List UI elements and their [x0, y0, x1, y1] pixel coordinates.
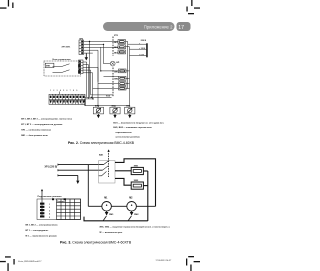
wire strip2 pin1 drop — [83, 62, 87, 97]
svg-text:М 1 — переключатель режима: М 1 — переключатель режима — [26, 236, 58, 238]
svg-text:ЗУ — включатели реж.: ЗУ — включатели реж. — [99, 232, 123, 234]
relay stack2 box3 — [119, 82, 127, 86]
relay stack2 box1 — [114, 69, 126, 73]
wire vertical drop node C — [97, 67, 99, 105]
svg-text:Vesta_BVD-60HF.indd 17: Vesta_BVD-60HF.indd 17 — [18, 260, 42, 263]
wire right bus vertical 1 — [127, 44, 129, 88]
motor unit M2 — [110, 106, 120, 114]
bottom chassis bus — [84, 217, 148, 221]
motor bus — [85, 105, 130, 107]
relay stack2 box2 — [114, 76, 126, 80]
svg-text:НЛ: НЛ — [116, 62, 120, 64]
table top edge ticks — [52, 198, 66, 200]
svg-text:МК1 — блок розжига печи: МК1 — блок розжига печи — [21, 134, 48, 137]
wire right bus vertical 2 — [129, 49, 131, 105]
wire harness row — [91, 94, 113, 96]
grid riser — [59, 92, 61, 95]
svg-text:переключатели: переключатели — [116, 132, 133, 134]
EM1 return wire — [144, 170, 148, 172]
svg-text:ВН1: ВН1 — [114, 71, 118, 73]
svg-text:17.09.2013 14:37: 17.09.2013 14:37 — [156, 259, 173, 262]
header page tab "17" — [177, 22, 191, 31]
svg-text:ВН1, ВН2 — клапанные горелки п: ВН1, ВН2 — клапанные горелки печи — [113, 127, 152, 129]
chassis diagonals — [103, 216, 131, 221]
return vertical — [147, 171, 149, 221]
motor M2 ground arrow — [113, 114, 116, 118]
contact blade 3 — [99, 171, 107, 175]
connector grid strip — [49, 94, 85, 104]
grid pins bottom row triangles — [50, 100, 85, 103]
junction dots — [91, 44, 104, 107]
wire strip2 pin4 drop — [83, 70, 91, 95]
legend fig3 right — [99, 226, 170, 234]
legend fig2 left — [21, 119, 73, 138]
svg-text:ВО1 — выключатель нагрузки эл.: ВО1 — выключатель нагрузки эл. сети дома… — [113, 123, 164, 125]
svg-text:ЭМ2: ЭМ2 — [134, 180, 139, 182]
lamp NL1 — [104, 61, 120, 66]
switch exit top thick — [115, 159, 156, 207]
svg-text:Рис. 3. Схема электрическая ВМ: Рис. 3. Схема электрическая ВМС-4-60ХТВ — [60, 241, 132, 245]
crop mark bottom-right — [186, 256, 200, 271]
svg-text:ХР1 ВУ1: ХР1 ВУ1 — [62, 47, 72, 49]
junction dot staircase — [89, 41, 90, 42]
supply bar — [146, 43, 148, 57]
fuse F1 — [114, 40, 125, 44]
wire to supply bar 220V — [128, 43, 147, 45]
switch exit low thick — [115, 178, 131, 185]
selector contact stack — [40, 203, 44, 218]
input wire L — [58, 164, 104, 166]
wire feed relay row3 — [98, 83, 119, 85]
row number labels — [49, 204, 51, 219]
motor unit M1 — [93, 106, 103, 114]
solenoid EM1 — [131, 165, 143, 174]
wire feed relay row4 — [93, 87, 119, 89]
wire harness lower — [85, 98, 93, 100]
svg-text:штепсельные разъёмы: штепсельные разъёмы — [116, 136, 140, 138]
svg-text:Рис. 2. Схема электрическая ВМ: Рис. 2. Схема электрическая ВМС-4-60ХВ — [68, 141, 135, 145]
header pill "Приложение 2" — [103, 22, 175, 31]
contact blade 1 — [104, 160, 110, 164]
down arrow mains — [85, 53, 88, 60]
switch linkage dashed — [108, 151, 110, 177]
svg-text:ВТ 1 — электродвигат.: ВТ 1 — электродвигат. — [26, 230, 49, 232]
solenoid EM2 — [131, 180, 143, 189]
wire M1 to M2 — [111, 205, 126, 207]
relay stack2 box4 — [119, 87, 127, 90]
PE drop with arrow — [76, 175, 79, 184]
input wire N — [58, 169, 103, 171]
svg-text:ВП 1, ВП 2, ВП 3 — электронагр: ВП 1, ВП 2, ВП 3 — электронагреват. пане… — [21, 119, 73, 121]
svg-text:Приложение 2: Приложение 2 — [144, 25, 173, 30]
wire vertical drop node A — [89, 42, 91, 98]
wire strip2 pin5 drop — [83, 73, 93, 99]
wire strip1 pin2 to lamp feed — [84, 44, 104, 63]
svg-text:Подключение режимов: Подключение режимов — [38, 196, 63, 198]
svg-text:ВТ 1, ВТ 2 — электродвигатели: ВТ 1, ВТ 2 — электродвигатели духовки — [21, 124, 63, 126]
svg-text:ХР1 (220 В): ХР1 (220 В) — [45, 167, 58, 169]
svg-text:ВК3: ВК3 — [114, 52, 118, 54]
svg-text:12 В: 12 В — [141, 48, 146, 50]
svg-text:ВО3: ВО3 — [126, 106, 130, 108]
svg-text:17: 17 — [178, 25, 184, 31]
svg-text:НЛ1 — сигнальная лампочка: НЛ1 — сигнальная лампочка — [21, 130, 52, 132]
mode selector table — [37, 199, 81, 220]
svg-text:ВК1: ВК1 — [114, 42, 118, 44]
switch contacts in control box — [53, 64, 81, 74]
legend fig2 right — [113, 123, 164, 139]
contact blade 2 — [103, 166, 109, 170]
svg-text:ВК2: ВК2 — [114, 47, 118, 49]
motor M1 chassis arrow — [105, 211, 114, 216]
motor unit M3 — [125, 106, 135, 114]
right dark riser from grid — [84, 99, 86, 106]
wire strip1 pin3 to fuse F2 — [84, 46, 119, 48]
svg-text:ЭМ1: ЭМ1 — [134, 165, 139, 167]
svg-text:220 В: 220 В — [141, 40, 147, 42]
EM2 return wire — [144, 185, 148, 187]
outer vertical bottom end — [155, 205, 157, 207]
svg-text:ЭМ1, ЭМ2 — защитные термостаты: ЭМ1, ЭМ2 — защитные термостаты батарей о… — [99, 226, 170, 229]
motor M1 ground arrow — [97, 114, 100, 118]
motor M2 chassis arrow — [130, 211, 139, 216]
svg-text:Блок управления: Блок управления — [53, 59, 72, 61]
wire to supply bar 12V — [130, 48, 147, 50]
wire feed relay VN1 — [101, 70, 119, 72]
wire strip1 pin4 drop — [84, 50, 99, 82]
crop mark bottom-left — [0, 256, 15, 271]
motor M3 ground arrow — [128, 114, 131, 118]
N branch vertical to motors — [87, 165, 89, 207]
table riser with arrow — [41, 189, 43, 199]
crop mark top-left — [0, 0, 14, 9]
MK1 text — [45, 63, 54, 67]
connector strip2 — [79, 60, 84, 74]
svg-text:2: 2 — [49, 207, 50, 209]
linkage arrow — [107, 149, 109, 151]
switch exit mid thick — [115, 170, 131, 172]
mode grid — [57, 199, 81, 220]
wire strip1 pin1 to fuse F1 — [84, 41, 119, 43]
svg-text:5: 5 — [49, 217, 50, 219]
fuse F3 — [114, 50, 125, 54]
wire harness upper — [85, 96, 112, 98]
dashed bus line lower — [112, 68, 114, 97]
svg-text:ЗМ2: ЗМ2 — [134, 214, 139, 216]
input wire PE — [58, 174, 78, 176]
svg-text:ЗМ1: ЗМ1 — [109, 214, 114, 216]
motor M2 circle — [127, 197, 137, 211]
svg-text:1 2 3 4 5 6 7 8 9: 1 2 3 4 5 6 7 8 9 — [50, 89, 78, 92]
svg-text:ВО2: ВО2 — [112, 106, 116, 108]
wire strip2 pin3 — [83, 66, 98, 68]
wire vertical drop node B — [100, 47, 102, 71]
wire feed relay VN2 and relay outputs — [104, 71, 130, 88]
svg-text:1: 1 — [49, 204, 50, 206]
wire to supply bar 0V — [130, 54, 147, 56]
input terminal ticks — [57, 164, 59, 177]
svg-text:3: 3 — [49, 210, 50, 212]
dashed bus line upper — [112, 37, 114, 57]
wire N to M1 — [88, 205, 102, 207]
crop mark top-right — [186, 0, 200, 14]
wire strip1 pin5 stub — [84, 52, 93, 54]
wire strip2 pin2 drop — [83, 65, 89, 99]
wire fuse F2 output — [126, 47, 130, 50]
connector XP2 strip1 — [79, 40, 84, 55]
dashed control box — [44, 61, 81, 76]
svg-text:0 В: 0 В — [141, 54, 145, 56]
fuse F2 — [114, 45, 125, 49]
motor M1 circle — [102, 197, 112, 211]
wire fuse F1 output — [126, 42, 128, 45]
switch box SA1 — [99, 161, 115, 183]
grid pins top row — [50, 96, 85, 98]
svg-text:ВН2: ВН2 — [114, 79, 118, 81]
motor drops — [98, 106, 129, 108]
terminal labels 220V — [140, 40, 147, 56]
legend fig3 left — [26, 225, 59, 238]
svg-text:ВК 1, ВК 2 — электровыключат.: ВК 1, ВК 2 — электровыключат. — [26, 225, 59, 227]
wire M2 to outer vertical — [136, 205, 155, 207]
selector stem — [41, 199, 43, 217]
